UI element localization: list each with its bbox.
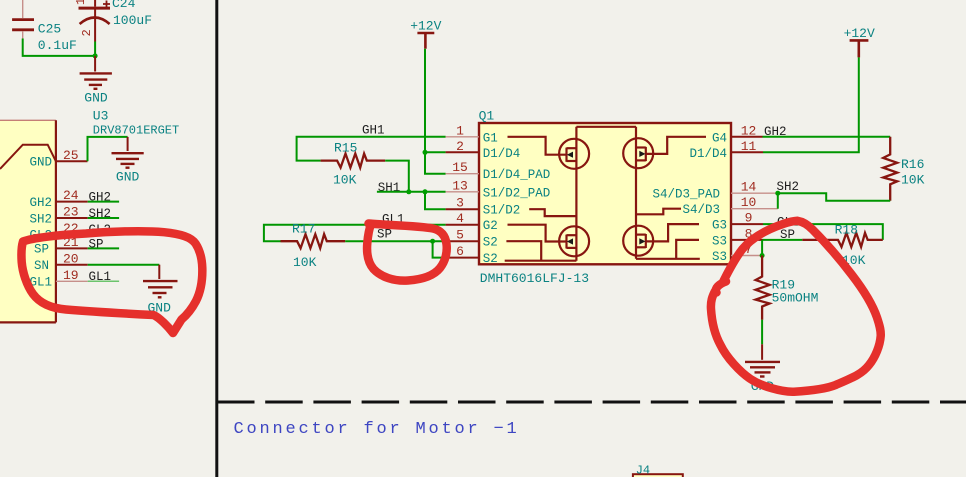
svg-text:13: 13 — [452, 178, 468, 193]
wire pin2 — [425, 151, 446, 153]
wire SH1 to pin3 — [425, 192, 446, 209]
Q1 pin 12 — [731, 136, 763, 138]
junction SH1/R15 — [406, 189, 411, 194]
svg-text:GH2: GH2 — [89, 191, 112, 205]
svg-text:14: 14 — [741, 180, 757, 195]
U3 pin 25 — [56, 160, 88, 162]
wire R15 to SH1 — [385, 161, 409, 192]
svg-text:R17: R17 — [292, 222, 315, 237]
wire +12V rail down to pins 2/15 — [425, 49, 446, 174]
svg-text:12: 12 — [741, 123, 757, 138]
junction pin14 — [775, 191, 780, 196]
Q1 left pin names — [483, 131, 551, 266]
svg-text:100uF: 100uF — [113, 13, 152, 28]
svg-text:G3: G3 — [712, 219, 727, 233]
svg-text:SP: SP — [377, 228, 392, 242]
Q1 pin 15 — [446, 173, 479, 175]
Q1 pin 13 — [446, 191, 479, 193]
wire SH1 — [377, 191, 446, 193]
Q1 pin 2 — [446, 151, 479, 153]
U3 pin 23 SH2 — [56, 217, 88, 219]
Q1 pin 5 — [446, 240, 479, 242]
svg-text:GND: GND — [84, 90, 108, 105]
svg-text:SP: SP — [89, 237, 104, 251]
U3 pin 24 GH2 — [56, 201, 88, 203]
U3 pin 21 SP — [56, 247, 88, 249]
svg-text:S3: S3 — [712, 234, 727, 248]
svg-text:DMHT6016LFJ-13: DMHT6016LFJ-13 — [480, 271, 589, 286]
transistor M2 (bottom-left in Q1) — [508, 225, 590, 257]
Q1 internal wire S2 pin6 — [505, 260, 577, 262]
ground GND2 (U3 pin25) — [112, 137, 144, 168]
svg-text:0.1uF: 0.1uF — [38, 38, 77, 53]
svg-text:D1/D4: D1/D4 — [689, 147, 727, 161]
svg-text:+12V: +12V — [410, 19, 441, 34]
wire C24 to junction — [94, 42, 96, 56]
junction at pin2 — [423, 150, 428, 155]
Q1 pin 9 — [731, 223, 763, 225]
wire R19 to GND — [761, 320, 763, 345]
wire +12V to pin11 — [763, 57, 859, 152]
svg-text:1: 1 — [74, 0, 88, 5]
Q1 pin 1 — [446, 136, 479, 138]
ground GND1 (below C24) — [80, 56, 112, 89]
wire SP pin8 to R18 — [763, 239, 802, 241]
wire GH1 — [297, 137, 446, 161]
Q1 internal wire S2 pin5 — [506, 241, 541, 261]
svg-text:G4: G4 — [712, 131, 727, 145]
resistor R17 — [281, 222, 346, 271]
svg-text:D1/D4: D1/D4 — [483, 147, 521, 161]
svg-text:10K: 10K — [333, 173, 357, 188]
transistor M3 (bottom-right in Q1) — [623, 224, 699, 256]
svg-text:50mOHM: 50mOHM — [772, 291, 819, 306]
svg-text:S1/D2: S1/D2 — [483, 204, 521, 218]
resistor R16 — [883, 137, 924, 201]
svg-text:DRV8701ERGET: DRV8701ERGET — [93, 124, 179, 138]
resistor R15 — [321, 141, 386, 188]
power +12V (left) — [410, 19, 441, 49]
wire pin25 to GND — [88, 137, 128, 161]
svg-text:S1/D2_PAD: S1/D2_PAD — [483, 186, 551, 200]
svg-text:GH2: GH2 — [29, 196, 52, 210]
svg-text:6: 6 — [456, 244, 464, 259]
svg-text:C24: C24 — [112, 0, 136, 11]
junction SP/pin6 — [430, 239, 435, 244]
svg-text:R18: R18 — [835, 223, 858, 238]
junction dot A — [93, 53, 98, 58]
svg-text:1: 1 — [456, 123, 464, 138]
U3 pin 20 SN wire to ground — [56, 264, 88, 266]
svg-text:SH2: SH2 — [29, 212, 52, 226]
transistor M1 (top-left in Q1) — [508, 137, 590, 169]
wire GL1 — [264, 225, 446, 242]
wire pin14 to pin10 — [777, 193, 779, 209]
svg-text:4: 4 — [456, 211, 464, 226]
svg-text:2: 2 — [456, 139, 464, 154]
svg-text:15: 15 — [452, 160, 468, 175]
wire GH2 pin12 to R16 — [763, 136, 891, 138]
capacitor C24 — [74, 0, 152, 42]
Q1 internal left vertical — [575, 127, 577, 261]
svg-text:10K: 10K — [901, 172, 925, 187]
red marker annotation right loop — [711, 221, 881, 392]
svg-text:25: 25 — [63, 148, 79, 163]
U3 pin 22 GL2 — [56, 233, 88, 235]
resistor R18 — [802, 223, 883, 269]
svg-text:R16: R16 — [901, 157, 924, 172]
svg-text:S2: S2 — [483, 236, 498, 250]
capacitor C25 — [12, 0, 77, 53]
svg-text:G1: G1 — [483, 131, 498, 145]
wire pin8 down to pin7 junction — [761, 240, 763, 256]
svg-text:SH2: SH2 — [89, 207, 112, 221]
wire to pin6 — [433, 241, 446, 257]
svg-text:2: 2 — [80, 29, 94, 36]
Q1 internal wire S3 pin8 — [676, 240, 699, 259]
svg-text:3: 3 — [456, 196, 464, 211]
svg-text:S3: S3 — [712, 250, 727, 264]
svg-text:GND: GND — [29, 156, 52, 170]
svg-text:11: 11 — [741, 139, 757, 154]
svg-text:19: 19 — [63, 268, 79, 283]
wire GL2 pin9 to R18 — [763, 224, 883, 240]
svg-text:SN: SN — [34, 259, 49, 273]
Q1 internal drain rail — [576, 126, 636, 128]
svg-text:9: 9 — [745, 211, 753, 226]
svg-text:Connector for Motor −1: Connector for Motor −1 — [234, 420, 520, 439]
svg-text:Q1: Q1 — [479, 108, 495, 123]
Q1 internal wire S3 pin7 — [636, 258, 700, 260]
sheet frame vertical line — [215, 0, 218, 477]
Q1 pin 8 — [731, 239, 763, 241]
red marker annotation middle loop — [367, 224, 447, 281]
svg-text:J4: J4 — [636, 464, 650, 477]
wire SP to pin5 — [345, 240, 445, 242]
Q1 internal wire S4/D3 — [636, 209, 681, 215]
svg-text:S4/D3: S4/D3 — [682, 203, 720, 217]
red marker annotation left loop — [21, 231, 202, 333]
Q1 right pin names — [652, 131, 727, 264]
Q1 pin 10 — [731, 208, 778, 210]
Q1 pin 4 — [446, 224, 479, 226]
svg-text:10: 10 — [741, 195, 757, 210]
svg-text:C25: C25 — [38, 22, 61, 37]
svg-text:GH1: GH1 — [362, 124, 385, 138]
svg-text:SP: SP — [34, 243, 49, 257]
svg-text:GND: GND — [116, 170, 140, 185]
Q1 pin 3 — [446, 208, 479, 210]
Q1 pin 14 — [731, 192, 778, 194]
svg-text:24: 24 — [63, 188, 79, 203]
ground GND3 (U3 pin20) — [143, 265, 178, 298]
Q1 pin 7 — [731, 255, 762, 257]
svg-text:GL1: GL1 — [89, 270, 112, 284]
svg-text:+12V: +12V — [844, 26, 875, 41]
junction pin7 — [760, 253, 765, 258]
junction SH1/pin3 — [423, 189, 428, 194]
Q1 pin 11 — [731, 151, 763, 153]
resistor R19 — [756, 256, 819, 320]
svg-text:10K: 10K — [293, 255, 317, 270]
svg-text:S2: S2 — [483, 252, 498, 266]
wire C25 to junction — [23, 39, 95, 56]
U3 pin names — [29, 156, 52, 290]
svg-text:5: 5 — [456, 228, 464, 243]
svg-text:G2: G2 — [483, 219, 498, 233]
Q1 internal right vertical — [635, 127, 637, 259]
sheet dashed divider — [217, 401, 966, 404]
IC U3 body — [0, 120, 56, 322]
U3 pin 19 GL1 — [56, 280, 88, 282]
power +12V (right) — [844, 26, 875, 57]
IC Q1 body — [479, 123, 731, 264]
transistor M4 (top-right in Q1) — [623, 137, 706, 168]
wire SH2 to R16 — [778, 193, 890, 201]
Q1 internal wire S1/D2 — [529, 209, 576, 216]
svg-text:U3: U3 — [93, 109, 109, 124]
svg-text:S4/D3_PAD: S4/D3_PAD — [652, 188, 720, 202]
svg-text:D1/D4_PAD: D1/D4_PAD — [483, 168, 551, 182]
svg-text:R15: R15 — [334, 141, 357, 156]
svg-text:20: 20 — [63, 251, 79, 266]
connector J4 body — [633, 474, 683, 477]
Q1 pin 6 — [446, 257, 479, 259]
ground GND4 (below R19) — [745, 344, 780, 376]
svg-text:23: 23 — [63, 205, 79, 220]
